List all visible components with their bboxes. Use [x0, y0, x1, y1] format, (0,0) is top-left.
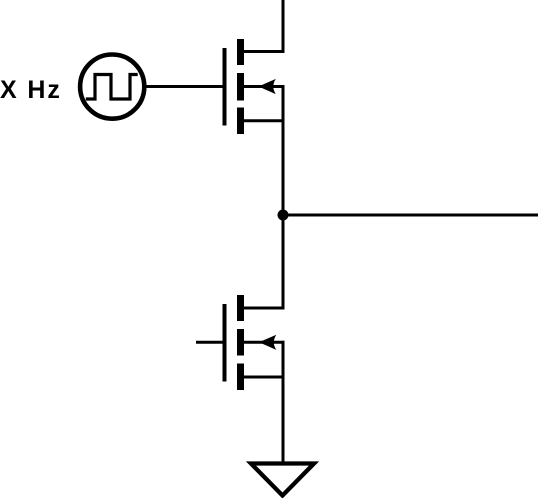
M2 drain lead: [243, 307, 285, 310]
M2 source lead: [243, 376, 285, 379]
M1 body arrow: [259, 79, 276, 94]
M1 gate line: [223, 48, 227, 126]
M1 body channel bar: [237, 73, 244, 101]
wire: M2 gate stub: [196, 341, 227, 344]
M2 source channel bar: [237, 364, 244, 391]
M2 body arrow: [259, 335, 276, 350]
node A (output junction dot): [278, 210, 289, 221]
svg-text:X Hz: X Hz: [0, 76, 62, 104]
M1 drain lead: [243, 50, 285, 53]
M2 body lead: [243, 341, 285, 344]
M1 drain channel bar: [237, 39, 244, 65]
wire: top supply down to M1 drain: [282, 0, 285, 53]
M2 drain channel bar: [237, 295, 244, 321]
M2 body-to-source wire: [282, 341, 285, 379]
M2 body channel bar: [237, 329, 244, 356]
wire: M1 source down to output node: [282, 121, 285, 215]
M1 source lead: [243, 119, 285, 122]
voltage source V1 (square-wave generator): [80, 55, 144, 119]
wire: M2 source down to ground: [282, 377, 285, 464]
wire: V1 output to M1 gate: [144, 85, 224, 88]
ground: [251, 464, 314, 496]
transistor M2 (lower MOSFET): [223, 295, 285, 390]
transistor M1 (upper MOSFET): [223, 39, 285, 134]
M1 body-to-source wire: [282, 85, 285, 122]
M1 body lead: [243, 85, 285, 88]
wire: output node down to M2 drain: [282, 215, 285, 310]
wire: output node to right edge: [283, 214, 538, 217]
M2 gate line: [223, 304, 227, 382]
M1 source channel bar: [237, 108, 244, 135]
